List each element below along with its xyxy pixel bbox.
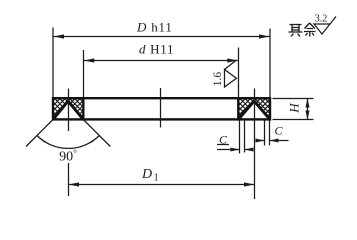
ring outline <box>53 98 270 119</box>
text 其余 (drawn strokes) <box>289 23 316 37</box>
svg-text:C: C <box>274 124 283 138</box>
dimension D1 <box>69 182 255 186</box>
dimension 90 degrees <box>26 120 110 149</box>
dimension C right <box>256 121 289 146</box>
dimension D h11 <box>53 28 270 98</box>
svg-text:C: C <box>219 133 228 147</box>
v-groove left <box>53 101 83 119</box>
svg-text:d H11: d H11 <box>139 42 174 57</box>
centerline right groove / D1 extension right <box>254 89 256 200</box>
note 其余 3.2 roughness symbol <box>314 17 336 35</box>
roughness symbol 1.6 <box>225 60 237 87</box>
svg-text:H: H <box>287 103 302 114</box>
v-groove right <box>238 101 270 119</box>
dimension H <box>273 99 314 120</box>
svg-text:1.6: 1.6 <box>212 72 224 87</box>
dimension d H11 <box>84 48 239 98</box>
dimension C left <box>217 121 254 154</box>
hatch right section <box>220 98 291 119</box>
svg-text:3.2: 3.2 <box>315 14 328 25</box>
hatch left section <box>34 98 100 119</box>
svg-text:D h11: D h11 <box>136 20 173 35</box>
centerline left groove / D1 extension left <box>68 89 70 197</box>
centerline axis <box>160 88 162 128</box>
